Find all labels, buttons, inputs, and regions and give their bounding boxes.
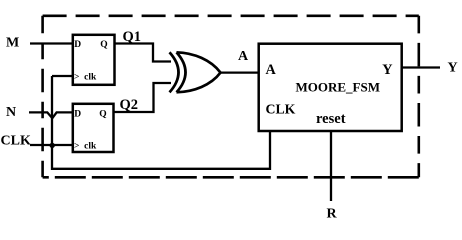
wire N input with hop over clk line: [29, 112, 73, 118]
svg-text:D: D: [74, 40, 81, 50]
enclosure dashed border bottom edge: [43, 176, 419, 179]
wire CLK input: [30, 144, 73, 146]
enclosure dashed border right edge: [417, 16, 420, 178]
svg-text:R: R: [327, 207, 338, 222]
svg-text:reset: reset: [316, 111, 346, 127]
svg-text:> clk: > clk: [74, 141, 97, 151]
svg-text:D: D: [74, 110, 81, 120]
svg-text:Y: Y: [448, 61, 458, 76]
wire Q1 from U1.Q to XOR upper input: [115, 44, 172, 62]
svg-text:CLK: CLK: [266, 102, 296, 117]
svg-text:Q: Q: [99, 110, 106, 120]
D flip-flop U2 body: [73, 104, 114, 152]
wire CLK vertical branch to U1: [51, 76, 53, 145]
svg-text:MOORE_FSM: MOORE_FSM: [296, 80, 381, 95]
D flip-flop U1 body: [73, 35, 115, 85]
svg-text:N: N: [6, 105, 16, 120]
MOORE_FSM block U4: [259, 44, 402, 131]
XOR gate U3: [170, 52, 221, 92]
svg-text:M: M: [6, 36, 19, 51]
svg-text:Y: Y: [382, 62, 392, 78]
svg-text:A: A: [266, 62, 277, 78]
enclosure dashed border left edge: [41, 16, 44, 178]
svg-text:CLK: CLK: [1, 133, 31, 148]
svg-text:Q2: Q2: [120, 97, 139, 113]
wire CLK branch to MOORE_FSM clock: [52, 131, 270, 169]
svg-text:Q: Q: [100, 40, 107, 50]
enclosure dashed border top edge: [43, 15, 419, 18]
wire Y output: [402, 66, 440, 68]
wire M input: [30, 42, 73, 44]
wire reset input R: [330, 131, 332, 201]
junction dot on CLK net: [50, 143, 55, 148]
svg-text:A: A: [238, 49, 249, 64]
wire Q2 from U2.Q to XOR lower input: [114, 83, 172, 112]
wire XOR output A: [221, 71, 259, 73]
wire U1 clk stub: [52, 75, 73, 77]
svg-text:> clk: > clk: [74, 72, 97, 82]
